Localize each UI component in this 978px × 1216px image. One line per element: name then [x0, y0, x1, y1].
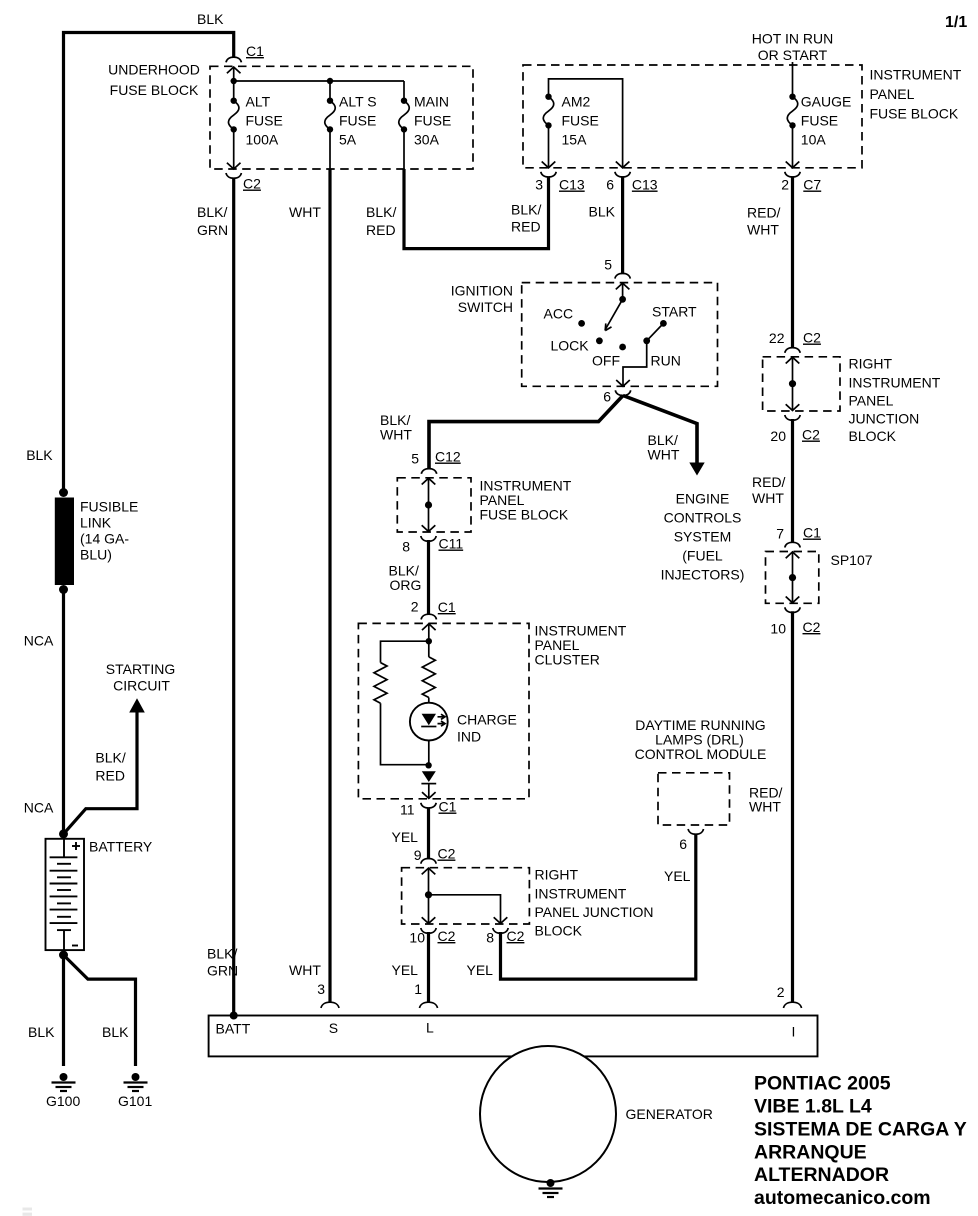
node SP107 splice joint — [789, 574, 796, 581]
connector pin 6 DRL module — [688, 829, 703, 834]
svg-text:CIRCUIT: CIRCUIT — [113, 678, 170, 694]
svg-text:BLK/: BLK/ — [197, 204, 227, 220]
wire YEL to generator L — [427, 932, 430, 1003]
svg-text:C13: C13 — [632, 177, 658, 193]
svg-text:SISTEMA DE CARGA Y: SISTEMA DE CARGA Y — [754, 1119, 967, 1141]
svg-text:6: 6 — [679, 836, 687, 852]
svg-text:1/1: 1/1 — [945, 14, 967, 31]
svg-text:OFF: OFF — [592, 353, 620, 369]
svg-text:RED: RED — [95, 768, 125, 784]
svg-text:ARRANQUE: ARRANQUE — [754, 1142, 867, 1164]
svg-text:LINK: LINK — [80, 515, 112, 531]
svg-text:CLUSTER: CLUSTER — [535, 652, 600, 668]
wire BLK/ORG to instrument panel cluster — [427, 540, 430, 615]
node internal fuse block joint — [425, 501, 432, 508]
svg-text:C13: C13 — [559, 177, 585, 193]
connector pin 6 ignition switch — [615, 390, 630, 395]
svg-text:IND: IND — [457, 729, 481, 745]
fuse ALT FUSE 100A — [228, 98, 239, 133]
svg-text:HOT IN RUN: HOT IN RUN — [752, 31, 833, 47]
connector pin 8 C2 junction block — [493, 928, 508, 933]
svg-text:FUSE: FUSE — [339, 113, 376, 129]
underhood fuse block box — [210, 66, 473, 169]
svg-text:RED: RED — [366, 222, 396, 238]
wire YEL cluster to junction block — [427, 808, 430, 860]
svg-text:ALTERNADOR: ALTERNADOR — [754, 1164, 889, 1186]
svg-text:RED: RED — [511, 219, 541, 235]
svg-text:RUN: RUN — [651, 353, 681, 369]
svg-text:FUSE: FUSE — [801, 113, 838, 129]
svg-text:GAUGE: GAUGE — [801, 94, 852, 110]
connector pin 11 C1 cluster — [421, 803, 436, 808]
svg-text:BLK: BLK — [589, 204, 616, 220]
connector pin 2 C7 — [785, 172, 800, 177]
connector pin 8 C11 — [421, 536, 436, 541]
svg-text:PANEL: PANEL — [849, 393, 894, 409]
battery — [46, 839, 85, 950]
wire BLK/RED to starting circuit — [64, 712, 138, 834]
connector terminal S — [321, 1002, 339, 1008]
svg-text:C2: C2 — [243, 176, 261, 192]
node battery positive junction — [59, 829, 68, 838]
connector pin 6 C13 — [615, 172, 630, 177]
svg-text:OR START: OR START — [758, 47, 828, 63]
svg-text:ACC: ACC — [544, 306, 574, 322]
svg-text:STARTING: STARTING — [106, 661, 176, 677]
resistor series right branch — [428, 641, 430, 657]
svg-text:S: S — [329, 1020, 338, 1036]
svg-text:GRN: GRN — [197, 222, 228, 238]
svg-text:C2: C2 — [438, 928, 456, 944]
svg-text:C7: C7 — [803, 177, 821, 193]
wire BLK/GRN to generator BATT — [232, 178, 235, 1016]
resistor shunt left branch — [381, 641, 429, 662]
svg-text:3: 3 — [535, 177, 543, 193]
svg-text:ENGINE: ENGINE — [676, 491, 730, 507]
svg-text:FUSE BLOCK: FUSE BLOCK — [870, 106, 959, 122]
node right junction block joint — [789, 380, 796, 387]
svg-text:30A: 30A — [414, 132, 440, 148]
svg-text:FUSE: FUSE — [414, 113, 451, 129]
svg-text:JUNCTION: JUNCTION — [849, 411, 920, 427]
svg-text:20: 20 — [770, 428, 786, 444]
svg-text:GRN: GRN — [207, 963, 238, 979]
svg-text:11: 11 — [400, 802, 415, 818]
svg-text:INSTRUMENT: INSTRUMENT — [870, 67, 962, 83]
svg-text:INJECTORS): INJECTORS) — [661, 567, 745, 583]
svg-text:100A: 100A — [246, 132, 279, 148]
wire RED/WHT to junction block — [791, 176, 794, 348]
svg-text:15A: 15A — [562, 132, 588, 148]
svg-text:UNDERHOOD: UNDERHOOD — [108, 62, 200, 78]
svg-text:L: L — [426, 1020, 434, 1036]
connector pin 10 C2 SP107 — [785, 607, 800, 612]
node BATT terminal junction — [230, 1012, 238, 1020]
svg-text:C11: C11 — [439, 536, 464, 552]
svg-text:7: 7 — [776, 526, 784, 542]
svg-text:PANEL: PANEL — [870, 86, 915, 102]
svg-text:C1: C1 — [438, 599, 456, 615]
wire BLK/WHT split right to engine controls — [623, 396, 697, 464]
node junction ALT S feed — [327, 78, 333, 84]
svg-text:WHT: WHT — [747, 222, 779, 238]
node START contact — [660, 320, 667, 327]
svg-text:5A: 5A — [339, 132, 357, 148]
svg-text:ALT S: ALT S — [339, 94, 377, 110]
svg-text:C2: C2 — [803, 330, 821, 346]
ground G101 — [124, 1073, 148, 1091]
node junction ALT feed — [231, 78, 237, 84]
node OFF contact — [619, 344, 626, 351]
connector pin 3 C13 — [541, 172, 556, 177]
fuse AM2 FUSE 15A — [543, 94, 554, 129]
svg-text:C2: C2 — [507, 928, 525, 944]
svg-text:BLK: BLK — [197, 11, 224, 27]
svg-text:FUSE BLOCK: FUSE BLOCK — [110, 82, 199, 98]
wire ALT fuse to C2 — [233, 129, 235, 169]
ground generator case — [539, 1179, 563, 1197]
svg-text:BLK/: BLK/ — [511, 202, 541, 218]
wire internal bus underhood — [233, 67, 235, 101]
fuse MAIN FUSE 30A — [403, 81, 405, 101]
daytime running lamps (DRL) control module box — [658, 773, 730, 825]
fusible link (14 GA-BLU) — [59, 488, 68, 497]
svg-text:CHARGE: CHARGE — [457, 712, 517, 728]
svg-text:FUSE: FUSE — [562, 113, 599, 129]
connector C2 underhood fuse block — [226, 173, 241, 178]
svg-text:1: 1 — [414, 981, 422, 997]
svg-text:C2: C2 — [803, 619, 821, 635]
wire RED/WHT junction block to SP107 — [791, 419, 794, 543]
right instrument panel junction block (right) box — [763, 357, 840, 411]
svg-text:PANEL JUNCTION: PANEL JUNCTION — [535, 904, 654, 920]
svg-text:BLOCK: BLOCK — [535, 923, 583, 939]
svg-text:WHT: WHT — [289, 962, 321, 978]
svg-text:YEL: YEL — [664, 868, 691, 884]
wire internal AM2 bottom to pin 3 — [548, 126, 550, 168]
svg-text:6: 6 — [603, 389, 611, 405]
svg-text:9: 9 — [414, 847, 422, 863]
svg-text:BLK/: BLK/ — [366, 204, 396, 220]
node cluster bottom junction — [425, 762, 431, 768]
svg-text:10A: 10A — [801, 132, 827, 148]
node junction block split — [425, 891, 432, 898]
node ACC contact — [578, 320, 585, 327]
instrument panel fuse block (C12/C11) box — [397, 478, 471, 532]
connector pin 10 C2 junction block — [421, 928, 436, 933]
wire BLK/WHT split left to C12 — [429, 396, 623, 470]
svg-text:22: 22 — [769, 330, 785, 346]
wire GAUGE bottom to pin 2 — [792, 126, 794, 168]
svg-text:5: 5 — [604, 257, 612, 273]
instrument panel fuse block box — [523, 65, 862, 168]
svg-text:VIBE 1.8L L4: VIBE 1.8L L4 — [754, 1096, 872, 1118]
wire RUN contact to pin 6 — [623, 341, 647, 387]
svg-text:10: 10 — [409, 930, 425, 946]
instrument panel cluster box — [358, 623, 529, 798]
svg-text:START: START — [652, 304, 697, 320]
wire WHT to generator S — [329, 129, 331, 169]
wire BLK battery to G100 — [62, 955, 65, 1066]
svg-text:BLK/: BLK/ — [207, 946, 237, 962]
svg-text:2: 2 — [411, 599, 419, 615]
svg-text:IGNITION: IGNITION — [451, 283, 513, 299]
svg-text:YEL: YEL — [392, 829, 419, 845]
svg-text:C1: C1 — [803, 525, 821, 541]
svg-text:10: 10 — [770, 621, 786, 637]
fuse ALT S FUSE 5A — [329, 81, 331, 101]
svg-text:2: 2 — [781, 177, 789, 193]
generator terminal strip box — [209, 1016, 818, 1057]
svg-text:BLK: BLK — [102, 1024, 129, 1040]
node LOCK contact — [596, 337, 603, 344]
svg-text:FUSIBLE: FUSIBLE — [80, 499, 138, 515]
svg-text:RIGHT: RIGHT — [849, 356, 893, 372]
connector pin 20 C2 right junction block — [785, 415, 800, 420]
fuse GAUGE FUSE 10A — [792, 62, 794, 97]
svg-text:5: 5 — [411, 451, 419, 467]
diode cluster output — [422, 771, 436, 782]
svg-text:(FUEL: (FUEL — [682, 548, 723, 564]
svg-text:C2: C2 — [438, 846, 456, 862]
wire internal AM2 top to pin 6 — [549, 79, 623, 168]
svg-text:8: 8 — [486, 930, 494, 946]
svg-text:RIGHT: RIGHT — [535, 867, 579, 883]
svg-text:INSTRUMENT: INSTRUMENT — [849, 375, 941, 391]
wire RED/WHT to generator I — [791, 611, 794, 1003]
right instrument panel junction block box — [402, 868, 530, 924]
connector terminal I — [784, 1002, 802, 1008]
svg-text:MAIN: MAIN — [414, 94, 449, 110]
node cluster top junction — [426, 638, 432, 644]
wire NCA fusible link to battery — [62, 590, 65, 834]
connector terminal L — [420, 1002, 438, 1008]
svg-text:FUSE: FUSE — [246, 113, 283, 129]
svg-text:WHT: WHT — [752, 490, 784, 506]
svg-text:G101: G101 — [118, 1093, 152, 1109]
wire BLK/RED from MAIN fuse to IP fuse block pin 3 — [404, 169, 549, 249]
svg-text:ALT: ALT — [246, 94, 271, 110]
svg-text:CONTROL MODULE: CONTROL MODULE — [635, 746, 767, 762]
svg-text:FUSE BLOCK: FUSE BLOCK — [480, 507, 569, 523]
svg-text:BLK/: BLK/ — [95, 750, 125, 766]
svg-text:C12: C12 — [435, 449, 461, 465]
splice SP107 box — [766, 552, 819, 604]
svg-text:AM2: AM2 — [562, 94, 591, 110]
svg-text:BLK: BLK — [26, 447, 53, 463]
svg-text:6: 6 — [606, 177, 614, 193]
node RUN contact — [643, 337, 650, 344]
svg-text:2: 2 — [777, 984, 785, 1000]
svg-text:G100: G100 — [46, 1093, 80, 1109]
svg-text:SP107: SP107 — [831, 552, 873, 568]
node battery negative junction — [59, 951, 68, 960]
svg-text:NCA: NCA — [24, 800, 54, 816]
svg-text:YEL: YEL — [467, 962, 494, 978]
wire START to RUN contact — [647, 323, 664, 340]
scan artifact marks — [23, 1208, 33, 1211]
ignition switch box — [522, 283, 718, 387]
svg-text:INSTRUMENT: INSTRUMENT — [535, 886, 627, 902]
svg-text:CONTROLS: CONTROLS — [664, 510, 742, 526]
svg-text:GENERATOR: GENERATOR — [626, 1106, 713, 1122]
svg-text:WHT: WHT — [289, 204, 321, 220]
connector C1 underhood fuse block — [226, 57, 241, 73]
svg-text:RED/: RED/ — [752, 474, 786, 490]
svg-text:SWITCH: SWITCH — [458, 299, 513, 315]
node ignition pivot — [619, 296, 626, 303]
svg-text:8: 8 — [402, 539, 410, 555]
svg-text:I: I — [792, 1024, 796, 1040]
svg-text:BATTERY: BATTERY — [89, 839, 153, 855]
generator GENERATOR — [480, 1046, 616, 1182]
svg-text:C1: C1 — [439, 799, 457, 815]
svg-text:SYSTEM: SYSTEM — [674, 529, 732, 545]
svg-text:automecanico.com: automecanico.com — [754, 1187, 931, 1209]
svg-text:WHT: WHT — [648, 447, 680, 463]
ground G100 — [52, 1073, 76, 1091]
svg-text:(14 GA-: (14 GA- — [80, 531, 129, 547]
svg-text:BLOCK: BLOCK — [849, 428, 897, 444]
svg-text:3: 3 — [317, 981, 325, 997]
svg-text:NCA: NCA — [24, 633, 54, 649]
lamp CHARGE IND — [410, 703, 448, 741]
wire BLK branch to G101 — [64, 955, 136, 1066]
svg-text:BLU): BLU) — [80, 547, 112, 563]
wire BLK battery feed (top horizontal + left vertical) — [64, 33, 234, 493]
svg-text:C2: C2 — [802, 427, 820, 443]
wire YEL to DRL control module — [501, 834, 696, 980]
svg-text:WHT: WHT — [749, 799, 781, 815]
svg-text:ORG: ORG — [390, 577, 422, 593]
svg-text:BATT: BATT — [216, 1021, 251, 1037]
wire BLK to ignition switch — [621, 176, 624, 274]
switch wiper arm — [605, 299, 623, 330]
svg-text:BLK: BLK — [28, 1024, 55, 1040]
svg-text:LOCK: LOCK — [551, 338, 590, 354]
svg-text:YEL: YEL — [392, 962, 419, 978]
svg-text:C1: C1 — [246, 43, 264, 59]
svg-text:PONTIAC 2005: PONTIAC 2005 — [754, 1073, 891, 1095]
svg-text:RED/: RED/ — [747, 205, 781, 221]
svg-text:WHT: WHT — [380, 427, 412, 443]
